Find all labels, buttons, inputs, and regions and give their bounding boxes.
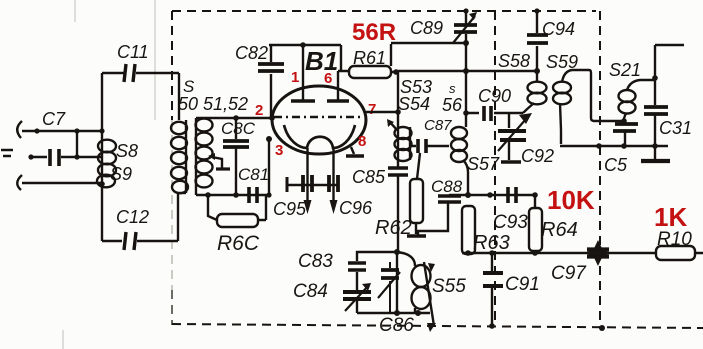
label C95 (273, 199, 307, 219)
label S53 (400, 77, 432, 97)
capacitor C31 (644, 107, 668, 146)
wire screen divider node (465, 192, 538, 198)
winding tap with arrow and ground bar (208, 153, 230, 169)
svg-text:C5: C5 (604, 155, 628, 175)
svg-text:R10: R10 (657, 229, 692, 250)
wire R61 up-and-over to C89 rail (391, 40, 469, 66)
capacitor C7 (input coupling plates) (50, 149, 59, 166)
resistor R63 (462, 206, 475, 254)
trimmer capacitor C92 (498, 113, 532, 162)
svg-text:6: 6 (324, 70, 332, 87)
svg-text:C86: C86 (379, 315, 414, 336)
label S54 (398, 94, 430, 114)
label s (449, 81, 456, 96)
svg-text:C7: C7 (42, 109, 66, 129)
svg-text:C89: C89 (410, 18, 443, 38)
label S59 (546, 52, 578, 72)
capacitor C95 feedthrough (303, 148, 312, 214)
svg-text:C90: C90 (478, 86, 511, 106)
resistor R10 (656, 246, 695, 260)
wire tank bottom (357, 310, 430, 316)
svg-text:R6C: R6C (217, 232, 260, 255)
label R61 (353, 48, 386, 68)
scan streak artifacts (63, 0, 155, 349)
svg-text:s: s (449, 81, 456, 96)
wire detector output top (652, 45, 684, 105)
capacitor C85 (388, 71, 408, 252)
pin number 8 (358, 133, 366, 150)
node oscillator tank top (394, 249, 400, 255)
label C94 (542, 19, 575, 39)
label C5 (604, 155, 628, 175)
resistor R64 (529, 195, 542, 253)
svg-text:C93: C93 (493, 212, 528, 233)
label C82 (235, 43, 268, 63)
oscillator coil S55 (397, 252, 436, 332)
label R64 (541, 219, 578, 241)
label 56 (442, 95, 463, 115)
svg-text:C97: C97 (551, 263, 587, 284)
svg-text:S21: S21 (609, 60, 641, 80)
capacitor C94 (527, 8, 548, 71)
label C97 (551, 263, 587, 284)
antenna terminal bottom (17, 175, 22, 190)
wire screen supply row (396, 68, 540, 74)
transformer winding 50/51/52 primary (171, 120, 188, 193)
wire oscillator rail (463, 43, 469, 127)
capacitor C88 (418, 195, 468, 236)
label S21 (609, 60, 641, 80)
tube B1 envelope (272, 86, 366, 154)
node pin 3 (266, 136, 272, 142)
svg-text:C88: C88 (431, 177, 463, 196)
antenna terminal top (17, 121, 22, 138)
pin number 3 (275, 142, 283, 159)
dashed screening-box border left (171, 11, 173, 325)
svg-text:8: 8 (358, 133, 366, 150)
tube electrode pin 1 (291, 45, 315, 101)
capacitor C11 (102, 64, 179, 82)
wire tank vertical (396, 252, 398, 313)
label C87 (424, 117, 452, 134)
label C84 (293, 281, 328, 302)
svg-text:C8C: C8C (221, 119, 256, 138)
wire pin3 riser (266, 139, 271, 198)
wire cathode bypass row (287, 177, 338, 192)
svg-text:R62: R62 (375, 217, 412, 239)
transformer winding 50/51/52 secondary (196, 118, 213, 195)
wire tie between input rows (76, 131, 78, 157)
wire grid node to tube pin 2 (196, 115, 273, 121)
label C11 (117, 42, 149, 62)
svg-text:R64: R64 (541, 219, 578, 241)
svg-text:S59: S59 (546, 52, 578, 72)
label C96 (339, 198, 373, 218)
tube anode curve (284, 125, 355, 148)
label C12 (116, 207, 149, 227)
tube pin 8 electrode (346, 147, 364, 156)
svg-text:C83: C83 (298, 251, 333, 272)
svg-text:1K: 1K (654, 202, 687, 232)
svg-text:S9: S9 (110, 164, 132, 184)
svg-text:2: 2 (255, 102, 263, 119)
wire pin7 to C85 rail (366, 109, 401, 115)
capacitor C8C (223, 118, 249, 195)
dashed screening-box border bottom (172, 324, 703, 328)
wire AVC return row (560, 143, 668, 149)
pin number 7 (368, 101, 376, 118)
capacitor C93 (508, 187, 516, 203)
svg-text:C92: C92 (521, 146, 554, 166)
node C97 star junction (586, 240, 610, 266)
svg-text:C31: C31 (659, 118, 692, 138)
capacitor C82 (258, 45, 284, 121)
svg-text:1: 1 (291, 69, 299, 86)
svg-text:C81: C81 (238, 165, 269, 184)
svg-text:C94: C94 (542, 19, 575, 39)
wire cathode row (196, 192, 271, 198)
label C8C (221, 119, 256, 138)
label S9 (110, 164, 132, 184)
svg-text:C12: C12 (116, 207, 149, 227)
svg-text:C96: C96 (339, 198, 373, 218)
capacitor C90 (466, 106, 523, 121)
capacitor C91 (483, 253, 503, 329)
svg-text:C87: C87 (424, 117, 452, 134)
dashed screening-box border top (172, 10, 596, 12)
pin number 2 (255, 102, 263, 119)
wire anode supply top (269, 42, 341, 48)
resistor R62 (407, 153, 426, 236)
oscillator coil B S56 (451, 127, 468, 195)
tube electrode pin 6 (327, 71, 349, 101)
wire middle input row (28, 154, 102, 159)
svg-text:S54: S54 (398, 94, 430, 114)
svg-text:C85: C85 (352, 167, 386, 187)
svg-text:C91: C91 (505, 274, 540, 295)
label C90 (478, 86, 511, 106)
pin number 1 (291, 69, 299, 86)
label S55 (432, 276, 466, 297)
chassis ground left (1, 150, 13, 156)
label R10 (657, 229, 692, 250)
svg-text:3: 3 (275, 142, 283, 159)
dashed internal divider (494, 11, 496, 326)
IF transformer winding S58 (523, 71, 547, 113)
svg-text:50 51,52: 50 51,52 (178, 94, 248, 114)
svg-text:S55: S55 (432, 276, 466, 297)
label 1K red (654, 202, 687, 232)
label C88 (431, 177, 463, 196)
node on bottom border (599, 325, 605, 331)
svg-text:7: 7 (368, 101, 376, 118)
svg-text:C84: C84 (293, 281, 328, 302)
label C7 (42, 109, 66, 129)
wire C12 riser to winding bottom (177, 193, 179, 241)
wire antenna top to rail (22, 128, 105, 133)
wire rail to transformer top (178, 73, 180, 120)
svg-text:S57: S57 (467, 154, 500, 174)
label C89 (410, 18, 443, 38)
svg-text:S58: S58 (498, 51, 530, 71)
wire left tuning rail (101, 73, 103, 241)
svg-text:C82: C82 (235, 43, 268, 63)
oscillator coil A (387, 119, 412, 161)
label C81 (238, 165, 269, 184)
label S58 (498, 51, 530, 71)
label S8 (116, 141, 138, 161)
coil S9 (97, 164, 116, 188)
wire antenna bottom to rail (22, 181, 105, 187)
svg-text:56: 56 (442, 95, 463, 115)
svg-text:C11: C11 (117, 42, 149, 62)
capacitor C96 feedthrough (329, 148, 338, 214)
svg-text:B1: B1 (305, 46, 338, 76)
pin number 6 (324, 70, 332, 87)
dashed screening-box border right (599, 11, 601, 327)
tube grid dashed line (274, 116, 364, 118)
label R62 (375, 217, 412, 239)
label R6C (217, 232, 260, 255)
trimmer capacitor C84 (343, 283, 371, 313)
svg-text:56R: 56R (352, 19, 396, 46)
label C86 (379, 315, 414, 336)
wire output bus (462, 250, 703, 256)
IF transformer winding S59 (553, 70, 622, 144)
ground symbol right (641, 146, 670, 161)
label 10K red (547, 185, 595, 215)
label C93 (493, 212, 528, 233)
capacitor C83 (348, 252, 397, 290)
label 56R red (352, 19, 396, 46)
label S57 (467, 154, 500, 174)
label C31 (659, 118, 692, 138)
resistor R61 (349, 66, 399, 78)
capacitor C12 (102, 232, 178, 250)
svg-text:S8: S8 (116, 141, 138, 161)
label 50 51,52 (178, 94, 248, 114)
label R63 (473, 232, 510, 254)
svg-text:R61: R61 (353, 48, 386, 68)
trimmer capacitor C89 (453, 8, 477, 43)
coil S8 (98, 140, 116, 165)
capacitor C87 (410, 139, 449, 153)
label C92 (521, 146, 554, 166)
label B1 (305, 46, 338, 76)
capacitor C81 (249, 187, 257, 203)
label C91 (505, 274, 540, 295)
wire pin6 to R61 (338, 45, 349, 71)
resistor R6C (208, 195, 266, 227)
capacitor C5 (613, 124, 638, 146)
label C83 (298, 251, 333, 272)
coil S21 (619, 80, 656, 124)
label C85 (352, 167, 386, 187)
label S (183, 77, 195, 96)
svg-text:C95: C95 (273, 199, 307, 219)
trimmer capacitor S55 parallel (378, 262, 400, 313)
svg-text:10K: 10K (547, 185, 595, 215)
